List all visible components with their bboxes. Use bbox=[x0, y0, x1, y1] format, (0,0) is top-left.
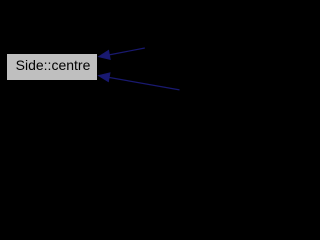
wire edge2 (lower caller arrow into Side::centre) bbox=[98, 73, 180, 90]
svg-text:Side::centre: Side::centre bbox=[16, 57, 91, 73]
node Side::centre bbox=[7, 54, 97, 80]
wire edge1 (upper caller arrow into Side::centre) bbox=[98, 48, 145, 60]
node box bbox=[7, 54, 97, 80]
